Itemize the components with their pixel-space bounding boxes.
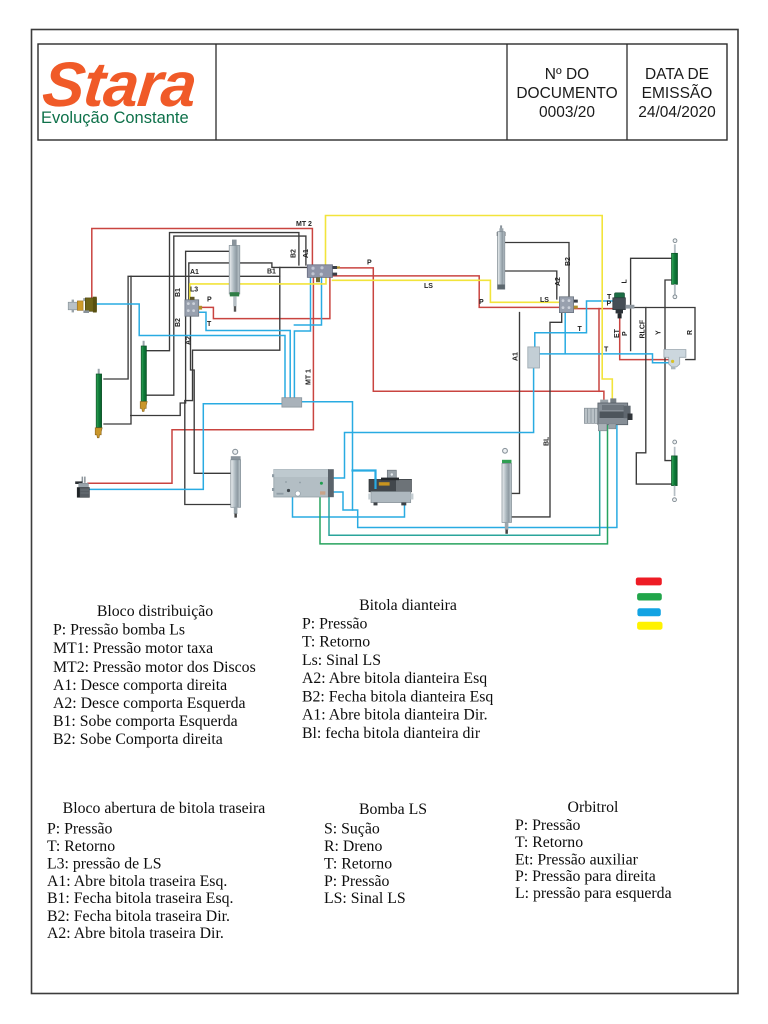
valve U3 LS valve — [559, 297, 577, 313]
wire cyan manifold to motor M2 — [90, 404, 282, 490]
wire black cyl G2 bottom port — [104, 276, 131, 424]
cylinder C3 lower — [502, 448, 512, 533]
priority valve with green cap — [613, 293, 635, 319]
svg-text:A1: Desce comporta direita: A1: Desce comporta direita — [53, 677, 227, 694]
svg-text:R: Dreno: R: Dreno — [324, 838, 382, 855]
cylinder C1 center top — [229, 240, 240, 312]
cylinder CL lower left — [231, 449, 241, 517]
valve U2 distribution top — [307, 265, 340, 282]
wire black A2 valve U1 to cylinder CL bottom — [131, 316, 186, 416]
svg-text:A1: A1 — [513, 352, 520, 361]
document number cell — [516, 66, 617, 121]
svg-text:P: Pressão: P: Pressão — [515, 817, 580, 834]
svg-text:P: P — [622, 331, 629, 336]
header divider 2 — [506, 44, 508, 140]
svg-text:T: Retorno: T: Retorno — [302, 634, 370, 651]
wire cyan T block to tank manifold bottom — [333, 368, 534, 478]
svg-text:A1: Abre bitola traseira Esq.: A1: Abre bitola traseira Esq. — [47, 873, 227, 890]
cyan return manifold — [282, 398, 302, 407]
svg-text:L3: L3 — [190, 287, 198, 294]
wire cyan pump suction overlay — [374, 478, 376, 489]
svg-text:A2: A2 — [186, 336, 193, 345]
wire cyan block lower right port — [333, 492, 353, 510]
bracket component right — [664, 350, 686, 370]
tank manifold gray box center right — [528, 347, 540, 368]
svg-text:MT 1: MT 1 — [306, 369, 313, 385]
svg-text:24/04/2020: 24/04/2020 — [638, 104, 716, 121]
svg-text:DATA DE: DATA DE — [645, 66, 709, 83]
wire black A2 cylinder C2 bottom — [506, 271, 557, 299]
svg-text:EMISSÃO: EMISSÃO — [642, 85, 713, 102]
wire cyan motor1 T trunk to priority valve — [97, 304, 286, 398]
wire black cyl G1 top port — [185, 267, 280, 504]
svg-text:P: P — [607, 301, 612, 308]
wire black priority valve right port stub — [626, 306, 631, 308]
wire P red valve U1 to valve U2 bottom — [195, 277, 330, 318]
svg-text:L: L — [622, 279, 629, 284]
wire black cylinder C1 top port — [186, 251, 229, 300]
svg-text:Y: Y — [656, 330, 663, 335]
svg-text:T: T — [207, 321, 212, 328]
wire cyan block to pump suction — [293, 498, 405, 518]
svg-text:MT 2: MT 2 — [296, 221, 312, 228]
red bar — [636, 578, 662, 586]
svg-text:Bomba LS: Bomba LS — [359, 801, 427, 818]
svg-text:Orbitrol: Orbitrol — [568, 799, 620, 816]
wire black A1 B1 to valve U2 — [189, 263, 308, 300]
wire ET red priority valve to bracket — [620, 314, 670, 360]
orbitrol steering unit — [584, 398, 632, 430]
motor M1 hydraulic motor left — [68, 297, 97, 313]
header divider 1 — [215, 44, 217, 140]
svg-text:B1: Sobe comporta Esquerda: B1: Sobe comporta Esquerda — [53, 713, 238, 730]
wire black B2 left — [146, 233, 299, 351]
cylinder G1 green left — [140, 341, 147, 412]
wire yellow L3 valve U1 to valve U2 — [190, 277, 326, 300]
wire black A1 B1 line — [104, 276, 280, 379]
wire black A1 LS valve to cylinder C3 — [512, 313, 520, 494]
header divider 3 — [626, 44, 628, 140]
wire black Y cylinder G3 bottom to cylinder G4 top — [665, 280, 671, 461]
svg-text:A2: Abre bitola traseira Dir.: A2: Abre bitola traseira Dir. — [47, 925, 224, 942]
valve U1 — [185, 297, 202, 316]
svg-text:P: Pressão: P: Pressão — [47, 821, 112, 838]
legend Bomba LS — [324, 801, 427, 907]
svg-text:Ls: Sinal LS: Ls: Sinal LS — [302, 652, 381, 669]
svg-text:LS: LS — [424, 283, 433, 290]
svg-text:B2: B2 — [175, 318, 182, 327]
svg-text:P: Pressão: P: Pressão — [302, 616, 367, 633]
svg-text:Bloco distribuição: Bloco distribuição — [97, 603, 213, 620]
svg-text:T: Retorno: T: Retorno — [324, 856, 392, 873]
legend Bloco distribuicao — [53, 603, 256, 748]
svg-text:A2: Desce comporta Esquerda: A2: Desce comporta Esquerda — [53, 695, 246, 712]
wire yellow LS signal — [333, 280, 560, 302]
wire cyan valve U2 drain a — [294, 278, 310, 398]
wire cyan valve U3 T to manifold — [540, 311, 671, 363]
svg-text:A1: A1 — [190, 269, 199, 276]
svg-text:T: T — [578, 326, 583, 333]
wire P red valve U2 to LS valve — [333, 276, 560, 308]
wire black valve U1 to cylinder CL top — [191, 316, 232, 473]
svg-text:Bitola dianteira: Bitola dianteira — [359, 597, 457, 614]
svg-text:B2: Fecha bitola dianteira Esq: B2: Fecha bitola dianteira Esq — [302, 689, 493, 706]
svg-text:B1: Fecha bitola traseira Esq.: B1: Fecha bitola traseira Esq. — [47, 890, 233, 907]
svg-text:BL: BL — [544, 436, 551, 446]
svg-text:P: Pressão bomba Ls: P: Pressão bomba Ls — [53, 622, 185, 639]
svg-text:LS: LS — [540, 297, 549, 304]
svg-text:S: Sução: S: Sução — [324, 821, 380, 838]
legend Orbitrol — [515, 799, 672, 902]
wire black BL LS valve to cylinder C3 bottom — [507, 311, 562, 517]
svg-text:P: P — [479, 299, 484, 306]
wire cyan branch to pump left port — [353, 471, 376, 491]
svg-text:T: Retorno: T: Retorno — [47, 838, 115, 855]
svg-text:P: Pressão: P: Pressão — [324, 873, 389, 890]
cyan bar — [637, 608, 660, 616]
cylinder G4 green right lower — [672, 440, 678, 502]
legend Bitola dianteira — [302, 597, 493, 742]
green bar — [637, 593, 662, 600]
cylinder G2 green left lower — [95, 369, 102, 438]
pump Bomba LS — [368, 470, 413, 505]
wire black L priority valve to cylinder G3 top — [631, 258, 672, 350]
colour legend bars — [636, 578, 663, 630]
motor M2 small motor bottom left — [75, 477, 89, 498]
wire cyan T tank manifold to priority valve — [535, 301, 613, 347]
wire black RLCF to cylinder G4 bottom — [636, 308, 671, 485]
yellow bar — [637, 622, 662, 630]
wire yellow valve U2 top to orbitrol ET — [326, 216, 613, 406]
schematic labels — [175, 221, 694, 446]
wire black B2 cylinder C2 top — [506, 243, 570, 300]
svg-text:L: pressão para esquerda: L: pressão para esquerda — [515, 885, 672, 902]
cylinder G3 green right top — [672, 239, 678, 299]
date cell — [638, 66, 716, 121]
svg-text:B2: Fecha bitola traseira Dir.: B2: Fecha bitola traseira Dir. — [47, 908, 230, 925]
svg-text:Et: Pressão auxiliar: Et: Pressão auxiliar — [515, 852, 639, 869]
svg-text:L3: pressão de LS: L3: pressão de LS — [47, 856, 162, 873]
svg-text:A1: Abre bitola dianteira Dir.: A1: Abre bitola dianteira Dir. — [302, 707, 488, 724]
wire P red valve U2 to orbitrol — [333, 268, 604, 405]
wire cyan valve U1 T — [195, 312, 290, 397]
wire MT1 red valve U2 to motor M2 — [88, 277, 313, 483]
svg-text:A2: A2 — [555, 277, 562, 286]
Stara logo — [39, 50, 199, 127]
svg-text:B2: B2 — [291, 249, 298, 258]
wire cyan manifold to pump and orbitrol — [302, 402, 617, 528]
svg-text:A2: Abre bitola dianteira Esq: A2: Abre bitola dianteira Esq — [302, 670, 487, 687]
svg-text:Bloco abertura de bitola trase: Bloco abertura de bitola traseira — [63, 800, 266, 817]
svg-text:P: P — [207, 297, 212, 304]
svg-text:Bl: fecha bitola dianteira dir: Bl: fecha bitola dianteira dir — [302, 725, 481, 742]
wire cyan valve U2 drain b — [294, 278, 321, 326]
wire red P branch down to orbitrol feed — [598, 309, 600, 392]
wire red LS valve to priority valve — [573, 308, 613, 310]
cylinder C2 — [497, 225, 506, 289]
svg-text:P: P — [367, 260, 372, 267]
legend Bloco abertura de bitola traseira — [47, 800, 265, 942]
svg-text:DOCUMENTO: DOCUMENTO — [516, 85, 617, 102]
svg-text:T: Retorno: T: Retorno — [515, 834, 583, 851]
header table — [38, 44, 727, 140]
wire MT2 red motor1 to valve U2 — [92, 229, 313, 299]
svg-text:R: R — [687, 330, 694, 335]
wire teal block to orbitrol — [329, 425, 600, 536]
svg-text:RLCF: RLCF — [640, 319, 647, 338]
svg-text:0003/20: 0003/20 — [539, 104, 595, 121]
svg-text:LS: Sinal LS: LS: Sinal LS — [324, 890, 406, 907]
svg-text:P: Pressão para direita: P: Pressão para direita — [515, 868, 656, 885]
svg-text:Nº DO: Nº DO — [545, 66, 589, 83]
wire black R rectangle — [631, 308, 695, 360]
svg-text:MT1: Pressão motor taxa: MT1: Pressão motor taxa — [53, 640, 213, 657]
svg-text:B1: B1 — [175, 288, 182, 297]
svg-text:B2: B2 — [565, 257, 572, 266]
distribution block lower center — [272, 469, 334, 497]
wire green block to orbitrol — [320, 425, 608, 544]
svg-text:A1: A1 — [303, 249, 310, 258]
svg-text:MT2: Pressão motor dos Discos: MT2: Pressão motor dos Discos — [53, 659, 256, 676]
svg-text:T: T — [604, 347, 609, 354]
svg-text:ET: ET — [614, 328, 621, 338]
svg-text:B1: B1 — [267, 269, 276, 276]
svg-text:B2: Sobe Comporta direita: B2: Sobe Comporta direita — [53, 731, 223, 748]
wire black A1 top left — [146, 236, 306, 395]
svg-text:Evolução Constante: Evolução Constante — [41, 109, 189, 127]
